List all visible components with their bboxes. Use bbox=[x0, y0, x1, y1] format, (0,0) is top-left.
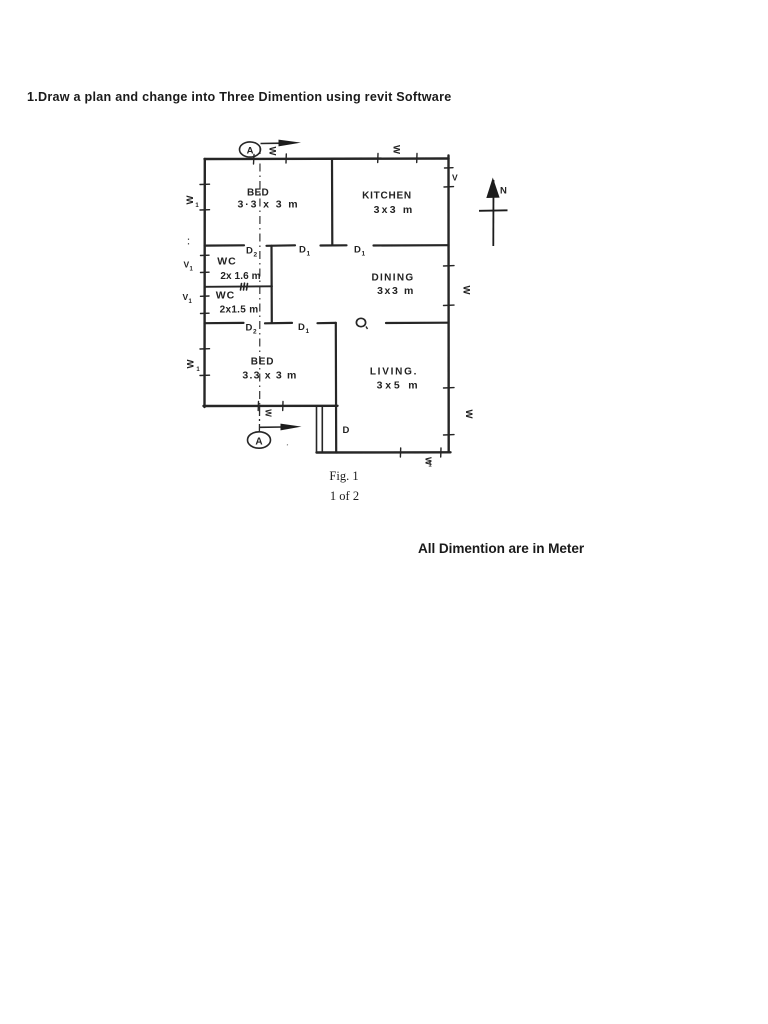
svg-text:Fig. 1: Fig. 1 bbox=[329, 469, 358, 483]
wire right wall bbox=[447, 156, 450, 453]
svg-text:D: D bbox=[298, 322, 305, 333]
wire top wall bbox=[205, 157, 449, 160]
svg-text:W: W bbox=[463, 410, 474, 419]
entrance channel left double line bbox=[317, 406, 323, 453]
ticks right wall bbox=[444, 187, 455, 435]
north arrow line bbox=[492, 180, 494, 246]
svg-text:V: V bbox=[452, 173, 458, 183]
wall y245 segment wc-stub bbox=[267, 244, 296, 247]
svg-text:2: 2 bbox=[254, 252, 258, 259]
svg-text:BED: BED bbox=[247, 188, 269, 199]
svg-text:D: D bbox=[343, 425, 350, 436]
wall y323 segment wc-stub bbox=[265, 322, 292, 325]
wall y323 segment dining-right bbox=[386, 322, 449, 324]
vent labels V bbox=[183, 173, 459, 306]
section arrow bottom bbox=[260, 426, 283, 428]
symbol O7 near dining bbox=[356, 318, 365, 326]
svg-text:DINING: DINING bbox=[371, 273, 414, 284]
section line A-A dash-dot bbox=[259, 146, 261, 406]
svg-text:W: W bbox=[264, 409, 273, 417]
svg-text:2x 1.6 m: 2x 1.6 m bbox=[220, 271, 260, 282]
wire left wall bbox=[203, 159, 206, 407]
svg-text:W: W bbox=[186, 359, 197, 368]
svg-text:W: W bbox=[267, 147, 278, 156]
wall living left vertical bbox=[335, 323, 338, 453]
svg-text:KITCHEN: KITCHEN bbox=[362, 191, 412, 202]
section line bottom stem bbox=[258, 407, 260, 432]
section arrow top bbox=[261, 142, 282, 144]
scan speck colon bbox=[188, 239, 190, 245]
wall y323 segment left bbox=[205, 322, 244, 325]
svg-text:WC: WC bbox=[217, 256, 237, 268]
wall wc right vertical bbox=[270, 246, 272, 323]
wall y245 segment kitchen-foot bbox=[321, 244, 347, 246]
note: all dimensions in meter bbox=[418, 541, 584, 556]
section marker A bottom: circle bbox=[248, 432, 271, 448]
svg-text:N: N bbox=[500, 186, 507, 197]
wall bed1/kitchen bbox=[331, 159, 333, 245]
svg-text:1: 1 bbox=[306, 328, 310, 335]
room labels bbox=[216, 188, 421, 392]
tick right wall top corner bbox=[445, 167, 454, 169]
svg-text:LIVING.: LIVING. bbox=[370, 367, 418, 378]
svg-text:D: D bbox=[246, 323, 253, 334]
svg-text:3·3 x 3 m: 3·3 x 3 m bbox=[237, 199, 299, 211]
wire bed2 bottom wall bbox=[204, 405, 338, 408]
ticks top wall bbox=[254, 154, 418, 165]
wall y245 segment left bbox=[205, 244, 245, 247]
tick marks (windows/vents) bbox=[200, 154, 454, 458]
wall y323 segment living-foot bbox=[318, 322, 336, 325]
svg-text:3.3 x 3 m: 3.3 x 3 m bbox=[242, 369, 297, 381]
hatch marks on wc separator bbox=[241, 283, 248, 290]
svg-text:A: A bbox=[247, 146, 254, 157]
section marker A top: circle bbox=[240, 142, 261, 157]
svg-text:1: 1 bbox=[190, 267, 194, 273]
ticks bed2 bottom wall bbox=[258, 402, 283, 411]
svg-text:WC: WC bbox=[216, 290, 236, 302]
svg-text:W: W bbox=[391, 145, 402, 154]
svg-text:BED: BED bbox=[251, 357, 275, 368]
svg-text:1: 1 bbox=[195, 203, 199, 209]
svg-text:1: 1 bbox=[189, 299, 193, 305]
wire living bottom wall bbox=[317, 451, 451, 454]
svg-text:D: D bbox=[354, 245, 361, 256]
svg-text:2x1.5 m: 2x1.5 m bbox=[220, 305, 259, 316]
svg-text:1 of 2: 1 of 2 bbox=[330, 489, 359, 503]
svg-text:W: W bbox=[461, 286, 472, 295]
svg-text:1: 1 bbox=[196, 367, 200, 373]
svg-text:1: 1 bbox=[362, 251, 366, 258]
svg-text:D: D bbox=[246, 246, 253, 257]
heading line 1 bbox=[27, 90, 451, 104]
ticks left wall bbox=[200, 184, 210, 375]
svg-text:3x5 m: 3x5 m bbox=[377, 380, 421, 392]
svg-text:A: A bbox=[255, 437, 262, 448]
svg-text:3x3 m: 3x3 m bbox=[377, 285, 415, 297]
door labels bbox=[246, 245, 366, 437]
svg-text:D: D bbox=[299, 245, 306, 256]
north arrow head bbox=[486, 178, 499, 199]
wall y245 segment dining-left bbox=[374, 244, 449, 247]
svg-text:2: 2 bbox=[253, 329, 257, 336]
ticks living bottom wall bbox=[400, 448, 441, 457]
scan speck dot bbox=[286, 444, 289, 447]
wall wc middle separator bbox=[205, 285, 273, 288]
svg-text:3x3 m: 3x3 m bbox=[374, 204, 415, 216]
north arrow crossbar bbox=[479, 209, 508, 212]
svg-text:1: 1 bbox=[307, 251, 311, 258]
window labels W (rotated) bbox=[185, 145, 474, 468]
